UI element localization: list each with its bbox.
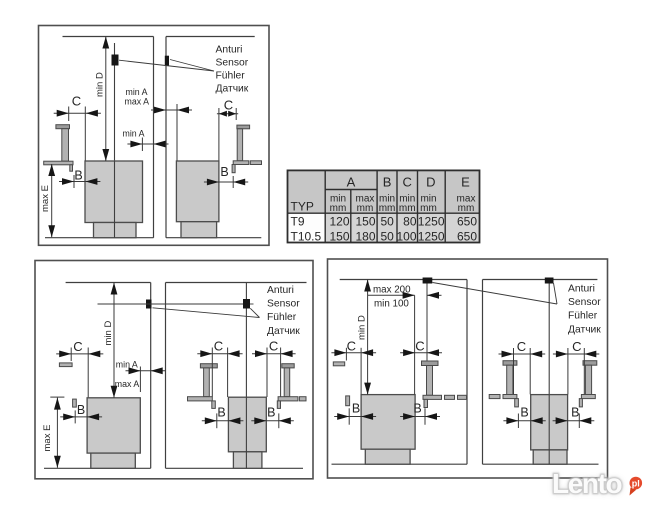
svg-text:max E: max E (40, 185, 51, 212)
svg-text:Anturi: Anturi (568, 284, 595, 295)
svg-text:max A: max A (125, 97, 150, 107)
svg-text:C: C (73, 339, 82, 354)
svg-text:Sensor: Sensor (267, 299, 300, 310)
svg-text:Anturi: Anturi (267, 285, 294, 296)
svg-text:Sensor: Sensor (568, 297, 601, 308)
svg-text:Датчик: Датчик (267, 326, 300, 337)
svg-text:min 100: min 100 (374, 299, 409, 310)
svg-text:B: B (217, 406, 225, 420)
svg-text:B: B (520, 406, 528, 420)
svg-text:1250: 1250 (418, 215, 445, 229)
svg-text:min D: min D (357, 315, 368, 340)
svg-text:C: C (214, 339, 223, 354)
svg-text:Lento: Lento (552, 468, 623, 499)
svg-text:mm: mm (357, 203, 374, 214)
svg-text:min D: min D (103, 321, 114, 346)
svg-text:Fühler: Fühler (216, 71, 246, 82)
svg-text:150: 150 (355, 215, 375, 229)
svg-text:min A: min A (123, 129, 145, 139)
svg-text:B: B (352, 402, 360, 416)
svg-text:E: E (461, 175, 470, 190)
svg-text:B: B (74, 169, 82, 183)
svg-text:Anturi: Anturi (216, 44, 243, 55)
svg-text:100: 100 (396, 229, 416, 243)
svg-text:mm: mm (458, 203, 475, 214)
svg-text:C: C (517, 339, 526, 354)
svg-text:mm: mm (420, 203, 437, 214)
svg-text:min A: min A (116, 360, 138, 370)
svg-text:Датчик: Датчик (216, 84, 249, 95)
svg-text:A: A (347, 175, 356, 190)
svg-text:pl: pl (632, 479, 640, 489)
svg-text:C: C (347, 339, 356, 354)
svg-text:B: B (383, 175, 392, 190)
svg-text:C: C (72, 94, 81, 109)
svg-text:B: B (77, 403, 85, 417)
svg-text:max E: max E (42, 425, 53, 452)
svg-text:D: D (426, 175, 435, 190)
svg-text:mm: mm (330, 203, 347, 214)
svg-text:C: C (269, 339, 278, 354)
svg-text:B: B (413, 402, 421, 416)
svg-text:Датчик: Датчик (568, 324, 601, 335)
svg-text:T9: T9 (291, 215, 305, 229)
svg-text:Fühler: Fühler (568, 311, 598, 322)
svg-text:mm: mm (399, 203, 416, 214)
svg-text:50: 50 (381, 229, 395, 243)
svg-text:max 200: max 200 (373, 284, 411, 295)
svg-text:C: C (415, 339, 424, 354)
svg-text:80: 80 (403, 215, 417, 229)
svg-text:1250: 1250 (418, 229, 445, 243)
svg-text:T10.5: T10.5 (291, 229, 322, 243)
svg-text:B: B (220, 165, 228, 179)
svg-text:B: B (571, 406, 579, 420)
svg-text:650: 650 (457, 215, 477, 229)
svg-text:C: C (572, 339, 581, 354)
svg-text:max A: max A (115, 379, 140, 389)
svg-text:120: 120 (329, 215, 349, 229)
svg-text:180: 180 (355, 229, 375, 243)
svg-text:min A: min A (126, 87, 148, 97)
svg-text:B: B (267, 406, 275, 420)
svg-text:mm: mm (379, 203, 396, 214)
svg-text:50: 50 (381, 215, 395, 229)
svg-text:C: C (224, 98, 233, 113)
svg-text:Fühler: Fühler (267, 312, 297, 323)
svg-text:TYP: TYP (291, 199, 314, 213)
svg-text:650: 650 (457, 229, 477, 243)
svg-text:Sensor: Sensor (216, 57, 249, 68)
svg-text:C: C (403, 175, 412, 190)
svg-text:150: 150 (329, 229, 349, 243)
svg-text:min D: min D (95, 72, 106, 97)
